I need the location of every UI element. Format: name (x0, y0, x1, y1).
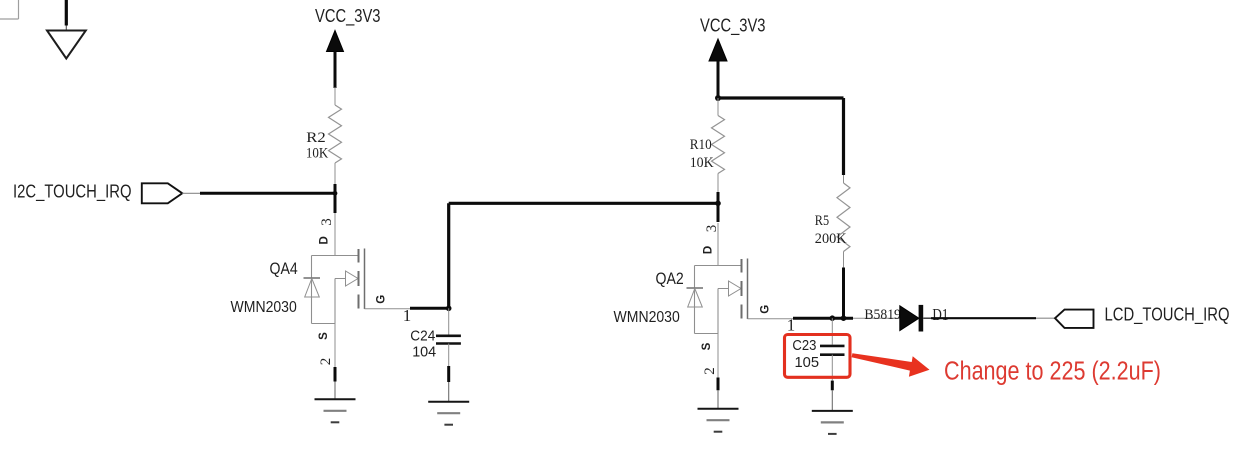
svg-text:B5819: B5819 (864, 307, 901, 323)
svg-text:D: D (703, 246, 715, 254)
svg-text:105: 105 (795, 354, 820, 371)
svg-text:C24: C24 (410, 327, 435, 344)
svg-text:S: S (701, 342, 713, 350)
svg-text:WMN2030: WMN2030 (231, 299, 298, 316)
svg-text:G: G (760, 305, 772, 314)
svg-text:2: 2 (318, 358, 334, 366)
svg-text:VCC_3V3: VCC_3V3 (315, 6, 381, 27)
svg-text:R10: R10 (690, 137, 712, 153)
svg-text:Change to 225 (2.2uF): Change to 225 (2.2uF) (944, 358, 1161, 386)
svg-text:10K: 10K (306, 145, 329, 161)
svg-text:200K: 200K (815, 231, 847, 247)
svg-text:3: 3 (319, 218, 335, 226)
svg-text:QA4: QA4 (270, 260, 298, 278)
svg-text:WMN2030: WMN2030 (614, 309, 681, 326)
svg-text:3: 3 (704, 225, 720, 233)
svg-text:VCC_3V3: VCC_3V3 (700, 16, 766, 37)
svg-text:LCD_TOUCH_IRQ: LCD_TOUCH_IRQ (1105, 304, 1230, 325)
svg-text:I2C_TOUCH_IRQ: I2C_TOUCH_IRQ (13, 181, 132, 202)
svg-text:10K: 10K (690, 155, 714, 171)
svg-text:C23: C23 (792, 337, 816, 354)
svg-text:104: 104 (412, 343, 436, 360)
svg-text:R5: R5 (815, 213, 829, 229)
svg-text:2: 2 (702, 367, 718, 375)
svg-text:S: S (318, 332, 330, 340)
svg-text:G: G (375, 295, 387, 304)
svg-text:QA2: QA2 (656, 270, 684, 288)
svg-text:D1: D1 (932, 305, 948, 324)
svg-text:1: 1 (403, 306, 412, 325)
svg-text:D: D (319, 236, 331, 244)
svg-text:R2: R2 (306, 130, 326, 146)
